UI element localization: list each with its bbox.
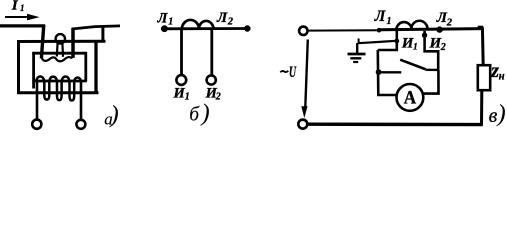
wire right rail upper — [481, 27, 485, 65]
secondary lead right — [80, 81, 83, 120]
secondary lead I2 — [210, 30, 213, 76]
terminal circle bottom-left — [298, 120, 307, 129]
arrow I1 direction — [5, 14, 40, 21]
svg-text:2: 2 — [227, 16, 234, 27]
label a) — [104, 102, 118, 129]
wire left rail — [305, 40, 308, 108]
label ~U — [280, 64, 297, 81]
label L2 — [216, 10, 234, 28]
wire right vertical to ammeter — [423, 70, 438, 94]
svg-text:1: 1 — [387, 16, 392, 27]
svg-text:Л: Л — [374, 8, 387, 25]
wire ground branch — [358, 41, 397, 43]
label v) — [489, 101, 506, 127]
wire left vertical to ammeter — [378, 50, 397, 95]
wire primary line — [161, 27, 251, 30]
wire loop tails from ring into window — [56, 43, 59, 57]
primary winding hump 1 — [396, 22, 412, 30]
wire I1 lead down from rail — [378, 31, 397, 50]
secondary winding under-loops — [44, 81, 74, 101]
primary winding hump 2 — [411, 21, 427, 30]
wire top rail thick part — [378, 29, 483, 30]
terminal circle I2 — [207, 75, 216, 84]
svg-text:): ) — [496, 101, 506, 127]
node L2 junction dot — [436, 26, 442, 32]
primary winding hump 1 — [182, 20, 200, 29]
svg-text:1: 1 — [185, 91, 190, 102]
wire switch left contact — [379, 71, 401, 73]
ground bar 3 — [353, 61, 358, 63]
core inner window box — [32, 52, 86, 89]
wire top rail thin part — [308, 29, 380, 31]
label I2 — [429, 35, 446, 53]
svg-text:I: I — [11, 0, 18, 13]
svg-text:н: н — [499, 68, 505, 82]
svg-text:Л: Л — [157, 10, 169, 26]
label I1 — [173, 85, 190, 102]
svg-text:А: А — [404, 88, 417, 109]
primary winding hump 2 — [199, 21, 214, 29]
wire primary top-left segment — [0, 24, 45, 27]
secondary lead I1 — [180, 30, 183, 76]
svg-text:Л: Л — [216, 10, 228, 26]
label L1 — [374, 8, 392, 27]
label z_n — [490, 60, 505, 82]
node small dot on rail — [377, 28, 382, 33]
svg-text:U: U — [289, 64, 297, 81]
svg-text:1: 1 — [20, 3, 25, 13]
wire switch right contact — [426, 69, 439, 71]
node dot on I1 lead at ground wire — [394, 39, 399, 44]
ground stem — [356, 43, 358, 54]
svg-text:): ) — [200, 101, 210, 127]
arrowhead on left rail — [301, 106, 307, 118]
label A — [404, 88, 417, 109]
label I2 — [205, 85, 221, 102]
wire primary top-right segment — [72, 26, 120, 29]
label L1 — [157, 10, 174, 27]
label I1 (primary current) — [11, 0, 25, 13]
secondary lead left — [36, 81, 39, 120]
terminal circle I1 — [176, 75, 186, 85]
primary loop crossing ring — [56, 34, 65, 43]
terminal circle right — [76, 120, 85, 129]
node L2 terminal dot — [244, 25, 250, 31]
wire primary right vertical (out of core window) — [71, 28, 75, 58]
ammeter A — [397, 84, 424, 111]
node junction dot left — [376, 69, 382, 75]
svg-text:2: 2 — [440, 42, 446, 53]
svg-text:2: 2 — [446, 17, 453, 28]
svg-text:1: 1 — [168, 16, 173, 27]
node L1 terminal dot — [161, 25, 168, 32]
wire I2 lead down and over — [425, 31, 439, 70]
terminal circle top-left — [299, 27, 307, 35]
corner notch top-right — [478, 26, 484, 29]
label b) — [189, 101, 209, 127]
wire right rail lower — [480, 90, 483, 125]
load box z_n — [478, 65, 490, 90]
ground bar 1 — [348, 53, 366, 56]
label I1 — [401, 36, 418, 53]
switch blade — [400, 60, 426, 70]
svg-text:1: 1 — [413, 43, 418, 53]
svg-text:в: в — [489, 105, 498, 127]
secondary winding bumps on bottom bar — [36, 77, 81, 81]
wire bottom rail — [307, 122, 482, 126]
svg-text:И: И — [173, 85, 186, 101]
svg-text:б: б — [189, 105, 200, 126]
terminal circle left — [32, 120, 41, 129]
label L2 — [436, 10, 453, 29]
core outer box — [17, 40, 106, 94]
wire primary left vertical (into core window) — [41, 25, 43, 59]
stub tick at ground corner — [358, 39, 360, 44]
wire primary squiggle in window — [41, 56, 73, 61]
wire stub down to core — [101, 28, 104, 42]
svg-text:): ) — [109, 102, 119, 128]
ground bar 2 — [350, 57, 361, 59]
node dot on I2 lead — [422, 33, 427, 38]
svg-text:2: 2 — [215, 91, 221, 102]
